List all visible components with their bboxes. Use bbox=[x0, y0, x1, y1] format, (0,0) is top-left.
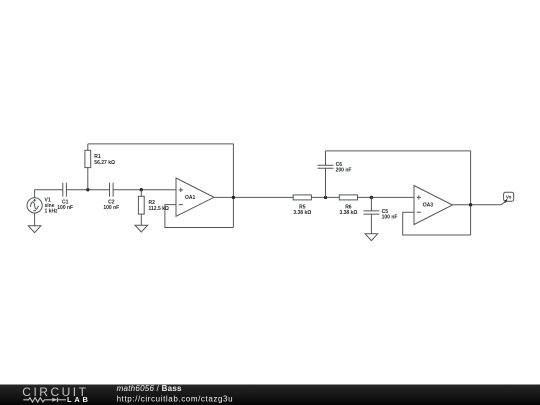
resistor R5 bbox=[293, 195, 311, 200]
op-amp OA1 bbox=[176, 178, 214, 216]
svg-text:http://circuitlab.com/ctazg3u: http://circuitlab.com/ctazg3u bbox=[117, 394, 234, 403]
wire V1 bottom to ground bbox=[34, 213, 36, 226]
wire C6 top bbox=[325, 151, 327, 165]
svg-text:3.38 kΩ: 3.38 kΩ bbox=[293, 210, 311, 216]
svg-text:1 kHz: 1 kHz bbox=[45, 208, 59, 214]
svg-text:112.5 kΩ: 112.5 kΩ bbox=[149, 206, 169, 212]
node junction R1 tap bbox=[86, 188, 89, 191]
wire junction up to R1 bbox=[87, 168, 89, 190]
resistor R6 bbox=[339, 195, 357, 200]
svg-text:LAB: LAB bbox=[67, 395, 91, 404]
svg-text:56.27 kΩ: 56.27 kΩ bbox=[94, 160, 115, 166]
R1 value label bbox=[94, 154, 115, 166]
wire C5 bottom to ground bbox=[370, 214, 372, 234]
op-amp OA3 bbox=[414, 186, 453, 225]
svg-text:math6056 / Bass: math6056 / Bass bbox=[117, 384, 182, 393]
wire OA3 output bbox=[453, 204, 501, 206]
R2 value label bbox=[149, 200, 169, 212]
node junction C6 tap bbox=[324, 196, 327, 199]
wire OA1 inverting input feedback bbox=[165, 205, 234, 228]
node junction OA3 output bbox=[469, 203, 472, 206]
svg-text:200 nF: 200 nF bbox=[336, 168, 352, 174]
ground (R2) bbox=[135, 225, 148, 232]
C1 value label bbox=[57, 200, 73, 212]
wire feedback top stage2 bbox=[326, 150, 471, 152]
C6 value label bbox=[336, 162, 352, 174]
wire main V1 to C1 bbox=[35, 189, 63, 191]
svg-text:100 nF: 100 nF bbox=[57, 205, 73, 211]
svg-text:100 nF: 100 nF bbox=[103, 205, 119, 211]
V1 value label bbox=[45, 197, 59, 214]
node junction C5 tap bbox=[370, 196, 373, 199]
wire V1 top to main bbox=[34, 190, 36, 198]
capacitor C1 bbox=[63, 183, 67, 197]
output flag Vo bbox=[504, 192, 514, 202]
R5 value label bbox=[293, 205, 311, 217]
resistor R2 bbox=[138, 196, 144, 214]
wire feedback right vertical stage1 bbox=[232, 144, 234, 228]
svg-text:OA3: OA3 bbox=[423, 203, 434, 209]
wire R1 top bbox=[87, 144, 89, 150]
wire OA1 output bbox=[214, 196, 293, 198]
resistor R1 bbox=[85, 150, 91, 167]
wire feedback right vertical stage2 bbox=[470, 151, 472, 235]
wire C6 tap up bbox=[325, 168, 327, 197]
CircuitLab logo resistor-diode glyph bbox=[23, 398, 66, 402]
wire R6 to OA3 bbox=[358, 196, 415, 198]
ground (V1) bbox=[28, 226, 41, 233]
C5 value label bbox=[382, 209, 398, 221]
svg-text:OA1: OA1 bbox=[185, 195, 196, 201]
wire OA3 inverting input feedback bbox=[403, 212, 471, 235]
wire feedback top stage1 bbox=[88, 143, 234, 145]
node junction OA1 output bbox=[232, 196, 235, 199]
wire R5 to R6 bbox=[311, 196, 339, 198]
R6 value label bbox=[339, 205, 357, 217]
C2 value label bbox=[103, 200, 119, 212]
wire C2 to opamp bbox=[113, 189, 176, 191]
wire R2 bottom to ground bbox=[140, 214, 142, 225]
svg-text:100 nF: 100 nF bbox=[382, 214, 398, 220]
capacitor C6 bbox=[318, 165, 334, 168]
wire to Vo flag bbox=[501, 201, 507, 205]
wire C1 to C2 bbox=[66, 189, 109, 191]
node junction R2 tap bbox=[140, 188, 143, 191]
svg-text:3.38 kΩ: 3.38 kΩ bbox=[339, 210, 357, 216]
capacitor C5 bbox=[363, 211, 379, 214]
wire junction down to R2 bbox=[140, 190, 142, 197]
voltage source V1 bbox=[27, 198, 42, 213]
wire C5 tap down bbox=[370, 197, 372, 211]
svg-text:Vo: Vo bbox=[506, 195, 512, 200]
capacitor C2 bbox=[110, 183, 114, 197]
ground (C5) bbox=[365, 234, 378, 241]
